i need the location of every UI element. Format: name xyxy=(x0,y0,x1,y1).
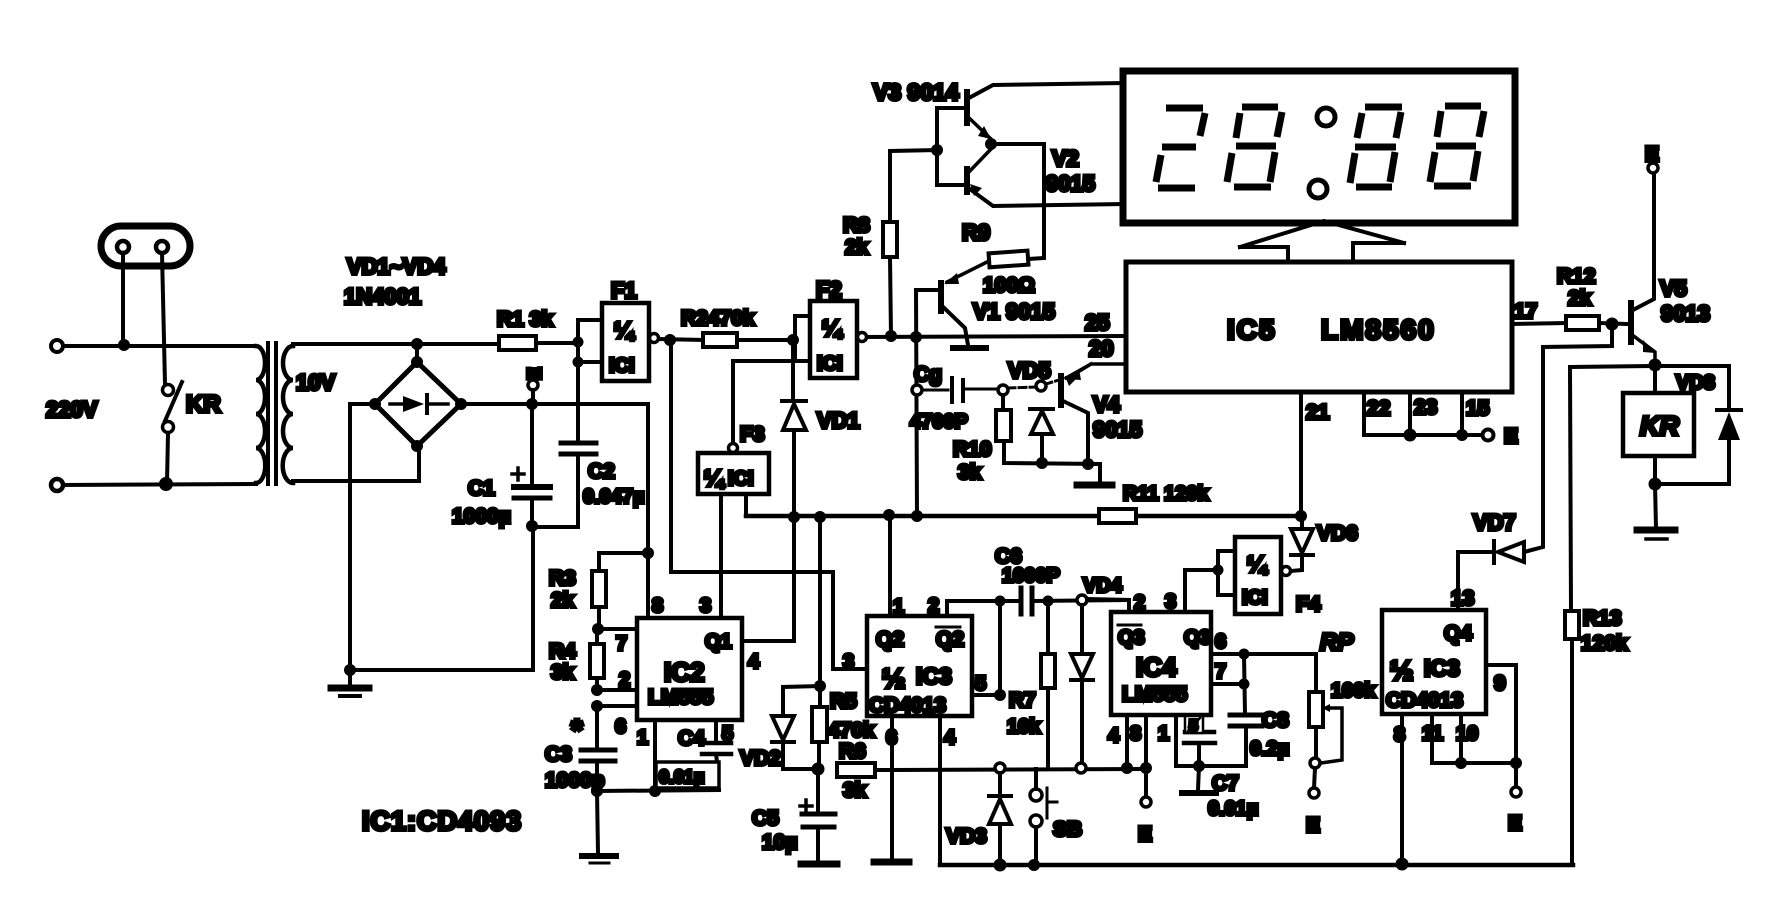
svg-text:4700P: 4700P xyxy=(910,411,968,433)
label IC4 pin5 struck xyxy=(1185,716,1203,733)
op-gate F1 (1/4 IC1) xyxy=(602,303,659,381)
junction pin7 xyxy=(1239,679,1250,690)
svg-text:*: * xyxy=(571,714,583,747)
svg-text:3: 3 xyxy=(1165,591,1176,613)
junction pin22 xyxy=(1404,429,1417,442)
wire IC2 pin1/pin5 bottom xyxy=(597,790,719,791)
svg-text:3k: 3k xyxy=(958,461,982,484)
junction R7 top xyxy=(1043,596,1054,607)
wire R9 to V1 collector xyxy=(944,261,989,284)
svg-text:V4: V4 xyxy=(1093,392,1121,417)
svg-text:R9: R9 xyxy=(962,220,990,245)
diode VD5 xyxy=(1030,381,1053,463)
display digit 4 xyxy=(1430,106,1484,186)
svg-text:VD8: VD8 xyxy=(1676,372,1715,394)
svg-text:9: 9 xyxy=(1494,672,1506,695)
svg-text:9015: 9015 xyxy=(1093,417,1142,442)
wire IC5 pin21 xyxy=(1299,392,1303,516)
junction pin23 xyxy=(1456,429,1468,441)
junction bridge top feed xyxy=(411,338,423,350)
svg-text:F3: F3 xyxy=(740,423,765,446)
wire IC4 pin1 xyxy=(1174,715,1178,766)
junction Q4 pin8 bottom xyxy=(1396,858,1409,871)
capacitor C8 xyxy=(1176,654,1262,766)
svg-text:15: 15 xyxy=(1466,397,1490,420)
svg-text:½: ½ xyxy=(1390,655,1413,686)
wire Q4 pin10 xyxy=(1459,714,1463,763)
svg-text:IC3: IC3 xyxy=(1424,655,1460,681)
svg-text:6: 6 xyxy=(615,716,626,738)
wire IC5 pin15 xyxy=(1460,392,1464,435)
wire KR bottom xyxy=(1655,456,1729,484)
capacitor C3 xyxy=(581,706,615,791)
svg-text:17: 17 xyxy=(1514,300,1537,323)
svg-text:IC3: IC3 xyxy=(916,663,952,689)
diode VD4 xyxy=(1071,595,1093,773)
svg-text:VD4: VD4 xyxy=(1083,575,1123,597)
svg-text:5: 5 xyxy=(1189,718,1198,735)
svg-text:E: E xyxy=(525,367,546,380)
display digit 3 xyxy=(1350,107,1402,187)
svg-text:2k: 2k xyxy=(551,589,575,612)
svg-text:23: 23 xyxy=(1414,396,1437,419)
svg-text:VD6: VD6 xyxy=(1317,522,1358,545)
node F1 output xyxy=(664,334,676,346)
svg-text:470k: 470k xyxy=(828,719,875,742)
wire pin6 stub xyxy=(597,704,637,708)
wire Q4 pin9 to E xyxy=(1486,665,1521,797)
junction top-left xyxy=(118,339,130,351)
svg-text:1000P: 1000P xyxy=(1002,565,1060,587)
svg-text:100Ω: 100Ω xyxy=(983,274,1035,297)
wire VD7 to Q4 pin13 xyxy=(1456,552,1460,610)
svg-text:R10: R10 xyxy=(953,438,992,461)
diode VD2 xyxy=(772,686,820,769)
ground IC3 pin6 xyxy=(874,859,909,866)
wire ground bus to C1 bottom xyxy=(350,526,533,670)
svg-text:Cg: Cg xyxy=(914,363,942,386)
resistor R6 xyxy=(837,763,1146,777)
wire Cg dashes to VD5 xyxy=(1008,387,1036,388)
junction bottom-left xyxy=(159,477,173,491)
relay KR xyxy=(1623,365,1694,456)
diode VD8 xyxy=(1717,410,1741,484)
junction VD5 bottom xyxy=(1036,457,1048,469)
svg-text:2k: 2k xyxy=(845,236,869,259)
resistor R3 xyxy=(592,553,648,629)
wire base bracket xyxy=(937,108,964,185)
svg-text:LM8560: LM8560 xyxy=(1321,314,1436,345)
svg-text:¼: ¼ xyxy=(704,465,725,491)
junction C7 xyxy=(1193,760,1205,772)
transistor V1 9015 xyxy=(916,283,968,345)
svg-text:CD4013: CD4013 xyxy=(1386,689,1463,712)
junction pin10/pin9 xyxy=(1510,757,1522,769)
capacitor C7 xyxy=(1184,715,1215,766)
arrow IC5 to display xyxy=(1240,221,1404,262)
svg-text:9013: 9013 xyxy=(1661,301,1710,326)
resistor R7 xyxy=(1041,601,1055,768)
display digit 2 xyxy=(1227,107,1282,187)
node E near C1 xyxy=(525,367,546,400)
wire V1 base down through Cg to rail xyxy=(916,290,917,516)
svg-text:4: 4 xyxy=(748,651,760,673)
svg-text:2k: 2k xyxy=(1568,287,1592,310)
svg-text:Q2: Q2 xyxy=(936,628,964,651)
wire secondary top xyxy=(293,342,499,346)
svg-text:¼: ¼ xyxy=(822,315,843,341)
diode VD1 xyxy=(782,345,806,517)
svg-text:F1: F1 xyxy=(611,278,637,303)
svg-text:25: 25 xyxy=(1085,310,1109,335)
svg-text:7: 7 xyxy=(616,633,627,655)
junction rail V1 xyxy=(911,510,923,522)
junction R3/R4 xyxy=(592,623,604,635)
svg-text:4: 4 xyxy=(1108,725,1120,747)
transformer T1 secondary xyxy=(283,346,293,483)
wire plug pin2 to switch xyxy=(162,253,165,384)
wire IC3 pin1 to rail xyxy=(888,514,892,616)
svg-text:ICI: ICI xyxy=(1242,587,1268,609)
svg-text:E: E xyxy=(1306,814,1320,837)
svg-text:F4: F4 xyxy=(1296,593,1321,616)
wire IC3 pin5 stub xyxy=(972,693,1000,697)
wire Q4 pin11 xyxy=(1432,714,1516,763)
svg-text:RP: RP xyxy=(1320,629,1354,656)
svg-text:8: 8 xyxy=(652,595,663,617)
svg-text:9015: 9015 xyxy=(1046,171,1095,196)
svg-text:R3: R3 xyxy=(549,567,576,590)
svg-text:E: E xyxy=(1504,425,1518,448)
junction pin2 xyxy=(591,684,603,696)
wire IC5 pin22 xyxy=(1362,392,1366,435)
op-gate F4 (1/4 IC1) xyxy=(1235,537,1291,614)
svg-text:0.01µ: 0.01µ xyxy=(1208,798,1258,820)
IC U5 clock chip IC5 LM8560 xyxy=(1126,262,1512,392)
svg-text:22: 22 xyxy=(1367,397,1390,420)
op-gate F2 (1/4 IC1) xyxy=(810,301,867,378)
switch KR xyxy=(163,382,183,433)
wire dashes VD5 to V4 base xyxy=(1046,380,1059,384)
diode VD7 xyxy=(1458,541,1524,563)
junction R5/R6/C5 xyxy=(812,763,825,776)
svg-text:CD4013: CD4013 xyxy=(869,694,946,717)
op-gate F3 (1/4 IC1) xyxy=(698,361,795,494)
svg-text:0.2µ: 0.2µ xyxy=(1250,738,1289,760)
svg-text:10k: 10k xyxy=(1007,716,1041,738)
display module box xyxy=(1123,71,1515,223)
resistor R12 xyxy=(1566,316,1628,330)
capacitor C1 xyxy=(512,404,550,526)
junction V1 base xyxy=(910,331,922,343)
svg-text:V3 9014: V3 9014 xyxy=(873,79,959,105)
svg-text:Q4: Q4 xyxy=(1444,622,1472,645)
svg-text:10V: 10V xyxy=(296,370,335,395)
wire IC5 pin17 to R12 xyxy=(1512,323,1566,324)
terminal L1 xyxy=(51,340,63,352)
svg-text:Q3: Q3 xyxy=(1118,627,1145,649)
transistor V5 9013 xyxy=(1631,173,1656,364)
transistor V2 9015 xyxy=(967,149,1123,206)
wire plug pin1 to top line xyxy=(121,253,125,345)
svg-text:2: 2 xyxy=(928,595,939,617)
capacitor C6 xyxy=(995,588,1130,614)
svg-text:¼: ¼ xyxy=(614,317,635,343)
junction IC4 pin4 xyxy=(1121,762,1133,774)
svg-text:KR: KR xyxy=(1640,411,1679,441)
wire pin7 stub xyxy=(597,627,637,631)
svg-text:VD7: VD7 xyxy=(1473,510,1516,535)
svg-text:R12: R12 xyxy=(1557,265,1596,288)
junction VD1 top xyxy=(787,334,799,346)
wire pins 22/23/15 bus to E xyxy=(1364,433,1481,437)
junction pin8 rail feed xyxy=(642,547,654,559)
svg-text:F2: F2 xyxy=(816,277,842,302)
wire IC3 pin2 to C6 xyxy=(947,601,1021,616)
svg-text:E: E xyxy=(1138,823,1152,846)
wire IC3 pin6 to ground xyxy=(890,716,894,860)
svg-text:3: 3 xyxy=(843,651,854,673)
svg-text:LM555: LM555 xyxy=(648,686,714,709)
svg-text:11: 11 xyxy=(1422,723,1443,745)
svg-text:20: 20 xyxy=(1089,336,1113,361)
svg-text:½: ½ xyxy=(882,663,905,694)
svg-text:10µ: 10µ xyxy=(762,831,797,854)
wire rail to R5 node xyxy=(818,517,822,686)
svg-text:1N4001: 1N4001 xyxy=(344,284,421,309)
transformer T1 primary xyxy=(256,346,265,483)
svg-text:21: 21 xyxy=(1306,401,1330,424)
resistor R11 xyxy=(1099,509,1136,523)
capacitor Cg xyxy=(912,378,998,402)
resistor R10 xyxy=(996,385,1100,464)
transistor V3 9014 xyxy=(967,83,1123,139)
svg-text:R4: R4 xyxy=(549,640,576,663)
svg-text:E: E xyxy=(1645,143,1659,166)
wire F2 out to IC5 pin25 xyxy=(867,336,1126,337)
wire secondary bottom xyxy=(293,447,419,481)
pushbutton SB xyxy=(1030,769,1057,865)
gate F4 input tie xyxy=(1213,551,1236,595)
junction V5 base xyxy=(1606,318,1619,331)
capacitor C2 xyxy=(534,362,596,527)
junction V3/V2 bases xyxy=(931,144,943,156)
junction C3 bottom xyxy=(591,785,603,797)
resistor R4 xyxy=(590,629,604,690)
svg-text:6: 6 xyxy=(886,727,897,749)
svg-text:KR: KR xyxy=(186,391,221,418)
junction R5 top xyxy=(814,680,826,692)
svg-text:5: 5 xyxy=(722,723,733,745)
junction pin1 xyxy=(649,785,661,797)
junction VD3 bottom xyxy=(994,859,1007,872)
svg-text:R5: R5 xyxy=(830,690,857,713)
svg-text:VD1~VD4: VD1~VD4 xyxy=(347,254,446,279)
junction IC4 pin8 xyxy=(1140,762,1152,774)
junction pin6 xyxy=(591,700,603,712)
svg-text:8: 8 xyxy=(1130,723,1141,745)
IC U3a flip-flop IC3 CD4013 xyxy=(867,616,972,716)
ground C5 xyxy=(801,861,837,868)
wire Q1 to rail xyxy=(742,517,794,641)
svg-text:R8: R8 xyxy=(843,214,870,237)
svg-text:¼: ¼ xyxy=(1247,551,1268,577)
junction V4 collector xyxy=(1082,458,1094,470)
svg-text:R6: R6 xyxy=(839,740,866,763)
junction C1 bottom xyxy=(526,520,538,532)
wire +V rail from bridge xyxy=(461,404,648,618)
svg-text:V1 9015: V1 9015 xyxy=(973,299,1055,324)
svg-text:C2: C2 xyxy=(588,460,615,483)
svg-text:Q3: Q3 xyxy=(1184,627,1211,649)
svg-text:Q1: Q1 xyxy=(705,631,732,653)
svg-text:7: 7 xyxy=(1215,661,1226,683)
transistor V4 9015 xyxy=(1061,364,1091,464)
ground V1 xyxy=(953,345,986,351)
svg-text:6: 6 xyxy=(1215,631,1226,653)
svg-text:5: 5 xyxy=(975,673,986,695)
svg-text:R2470k: R2470k xyxy=(681,307,755,330)
wire V5 base to VD7 xyxy=(1524,324,1612,552)
svg-text:C3: C3 xyxy=(545,743,572,766)
resistor R9 xyxy=(989,251,1029,268)
svg-text:120k: 120k xyxy=(1581,632,1628,655)
node E display bus xyxy=(1483,430,1494,441)
junction pin5 xyxy=(994,689,1006,701)
wire switch to bottom line xyxy=(167,433,168,483)
junction rail R5 xyxy=(814,511,826,523)
wire KR top to VD8 xyxy=(1655,366,1729,409)
wire bottom rail xyxy=(940,863,1573,868)
wire V3e/V2c to R9 xyxy=(991,144,1044,259)
diode VD6 xyxy=(1291,516,1313,571)
wire IC5 pin20 stub xyxy=(1067,364,1126,380)
wire IC4 pin6 stub xyxy=(1211,652,1244,656)
resistor R5 xyxy=(812,686,827,768)
svg-text:SB: SB xyxy=(1053,818,1082,841)
svg-text:VD2: VD2 xyxy=(740,747,781,770)
capacitor C4 xyxy=(656,720,731,788)
IC U3b flip-flop Q4 half IC3 xyxy=(1382,610,1486,714)
junction SB bottom xyxy=(1028,859,1040,871)
ground KR xyxy=(1637,484,1675,539)
resistor R13 xyxy=(1565,366,1655,865)
junction V5 emitter node xyxy=(1649,359,1662,372)
junction R8 xyxy=(885,330,897,342)
svg-text:0.01µ: 0.01µ xyxy=(659,767,704,787)
wire IC4 pin7 stub xyxy=(1211,682,1244,686)
junction rail pin21 xyxy=(1295,510,1307,522)
resistor R8 xyxy=(883,150,937,336)
svg-text:2: 2 xyxy=(1134,592,1145,614)
junction pin10 xyxy=(1455,757,1467,769)
wire F1 out to R2 xyxy=(659,339,703,340)
svg-text:1: 1 xyxy=(893,596,904,618)
svg-text:0.047µ: 0.047µ xyxy=(583,486,645,508)
wire IC3 pin4 to bottom rail xyxy=(938,716,942,865)
svg-text:C4: C4 xyxy=(678,727,705,750)
svg-text:1: 1 xyxy=(1158,723,1169,745)
svg-text:IC5: IC5 xyxy=(1227,314,1277,345)
gate F1 input tie xyxy=(573,320,603,368)
wire IC5 pin23 xyxy=(1408,392,1412,435)
svg-text:IC2: IC2 xyxy=(664,657,704,687)
svg-text:ICI: ICI xyxy=(728,468,754,490)
svg-text:IC4: IC4 xyxy=(1136,652,1177,682)
resistor R2 xyxy=(703,333,795,347)
svg-text:LM555: LM555 xyxy=(1122,683,1188,706)
svg-text:100k: 100k xyxy=(1331,680,1376,702)
junction KR bottom xyxy=(1649,478,1662,491)
svg-text:3: 3 xyxy=(700,595,711,617)
bridge rectifier VD1~VD4 xyxy=(369,344,467,452)
IC U2 timer IC2 LM555 xyxy=(637,618,742,720)
wire pin2 stub xyxy=(597,688,637,692)
gate F2 input tie xyxy=(795,316,810,361)
svg-text:4: 4 xyxy=(944,727,956,749)
svg-text:220V: 220V xyxy=(46,397,98,422)
junction C1 top xyxy=(526,398,538,410)
display digit 1 xyxy=(1156,108,1205,188)
junction rail VD1/Q1 xyxy=(788,511,800,523)
wire top mains xyxy=(63,344,256,348)
wire F3 input to rail xyxy=(744,494,748,516)
svg-text:VD1: VD1 xyxy=(817,408,860,433)
svg-text:1: 1 xyxy=(637,727,648,749)
svg-text:R13: R13 xyxy=(1583,607,1622,630)
svg-text:R1 3k: R1 3k xyxy=(497,308,553,331)
node VD3 top xyxy=(995,763,1005,773)
ground C3 xyxy=(582,791,616,863)
svg-text:1000µ: 1000µ xyxy=(452,505,511,528)
junction V3 emitter / V2 collector xyxy=(985,138,997,150)
wire F1 output feedback to IC3 pin3 xyxy=(671,345,867,669)
wire pin1 xyxy=(653,720,657,791)
junction rail IC3 pin1 xyxy=(883,509,895,521)
resistor R1 xyxy=(499,336,578,350)
svg-text:C5: C5 xyxy=(752,807,779,830)
display colon xyxy=(1317,108,1335,126)
IC U4 timer IC4 LM555 xyxy=(1111,612,1211,715)
svg-text:C7: C7 xyxy=(1212,772,1239,795)
diode VD3 xyxy=(989,773,1011,865)
wire Q4 pin8 to bottom rail xyxy=(1400,714,1404,865)
svg-text:C1: C1 xyxy=(468,477,495,500)
svg-text:E: E xyxy=(1508,812,1522,835)
svg-text:VD5: VD5 xyxy=(1008,358,1051,383)
svg-text:C8: C8 xyxy=(1262,709,1289,732)
wire IC4 pin4 xyxy=(1125,715,1129,768)
svg-text:3k: 3k xyxy=(551,661,575,684)
svg-text:Q2: Q2 xyxy=(876,628,904,651)
ground main xyxy=(331,664,369,696)
ground V4 xyxy=(1077,482,1112,489)
svg-text:R7: R7 xyxy=(1009,689,1036,712)
terminal L2 xyxy=(51,479,63,491)
svg-text:ICI: ICI xyxy=(609,355,635,377)
svg-text:2: 2 xyxy=(619,669,630,691)
junction pin6 xyxy=(1239,649,1250,660)
svg-text:10: 10 xyxy=(1456,723,1478,745)
capacitor C5 xyxy=(800,769,835,861)
svg-text:13: 13 xyxy=(1451,587,1474,610)
potentiometer RP 100k xyxy=(1244,654,1342,798)
wire F3 input to IC2 pin3 xyxy=(719,494,723,618)
wire IC4 pin2 xyxy=(1087,599,1129,612)
+V rail xyxy=(746,514,1301,519)
svg-text:R11 120k: R11 120k xyxy=(1123,483,1210,505)
wire C6 node down to pin5 xyxy=(998,601,1002,695)
